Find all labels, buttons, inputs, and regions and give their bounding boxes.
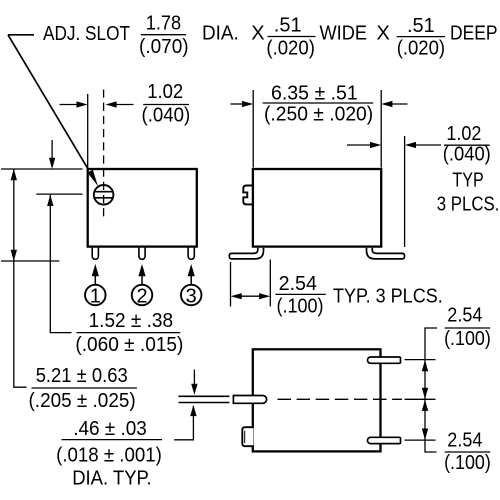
2.54 mid left arrow [231, 293, 242, 299]
side view tab [243, 186, 253, 205]
bottom view tab [242, 427, 253, 446]
5.21 up arrow [11, 169, 17, 180]
dim 2.54 right vertical with elbows [425, 328, 437, 452]
1.02 side left arrow [405, 142, 416, 148]
fraction line 2.54 mid [275, 293, 325, 295]
svg-text:.51: .51 [274, 15, 302, 37]
1.52 down arrow at top line [49, 158, 55, 169]
fraction line .51 wide [268, 36, 316, 38]
dimension line 1.52 vertical [50, 195, 71, 333]
extension 2.54 mid right [269, 260, 271, 307]
dimension line 5.21 vertical [14, 169, 27, 387]
pin number circles [85, 285, 201, 306]
fraction line 1.78 [141, 34, 186, 36]
dim 1.52 down arrow shaft [51, 140, 53, 160]
svg-text:DIA. TYP.: DIA. TYP. [72, 467, 151, 489]
svg-text:(.100): (.100) [444, 452, 491, 474]
svg-text:(.020): (.020) [266, 37, 315, 59]
svg-text:X: X [251, 23, 264, 45]
svg-text:DEEP: DEEP [450, 23, 498, 45]
front view pins [92, 246, 194, 259]
fraction line 6.35 [263, 102, 374, 104]
2.54 right: down at pin3 [422, 429, 428, 440]
svg-text:(.060 ± .015): (.060 ± .015) [75, 334, 183, 356]
leader ADJ. SLOT diagonal [8, 35, 97, 183]
svg-text:X: X [377, 23, 390, 45]
svg-text:1.02: 1.02 [446, 123, 481, 145]
screw circle [94, 90, 114, 222]
bottom view body [253, 349, 381, 451]
leader ADJ. SLOT horizontal [8, 34, 34, 36]
side view body [253, 169, 381, 247]
leader arrowhead [87, 170, 98, 186]
svg-text:WIDE: WIDE [320, 23, 368, 45]
.46 up arrow [190, 405, 196, 416]
svg-text:1.02: 1.02 [147, 81, 183, 103]
svg-text:DIA.: DIA. [202, 23, 239, 45]
tick center right [405, 398, 436, 400]
svg-text:(.020): (.020) [397, 38, 445, 60]
svg-text:.51: .51 [407, 15, 435, 37]
centerline dashed front view [103, 90, 105, 222]
svg-text:(.018 ± .001): (.018 ± .001) [56, 444, 162, 466]
extension line body top left [1, 168, 83, 170]
bottom view centerline inside [278, 398, 403, 400]
svg-text:(.100): (.100) [444, 328, 491, 350]
svg-text:6.35 ± .51: 6.35 ± .51 [271, 83, 358, 105]
svg-text:3 PLCS.: 3 PLCS. [437, 194, 500, 216]
5.21 down arrow [11, 250, 17, 261]
dim 1.02 side arrow shafts + fraction line [347, 144, 372, 146]
front view body [88, 169, 197, 247]
svg-text:ADJ. SLOT: ADJ. SLOT [43, 23, 130, 45]
dim .46 down arrow shaft [193, 370, 195, 386]
svg-text:.46 ± .03: .46 ± .03 [73, 418, 147, 440]
fraction line .51 deep [397, 36, 445, 38]
2.54 mid right arrow [259, 293, 270, 299]
svg-text:(.070): (.070) [139, 36, 189, 58]
fraction line 1.02 front [143, 104, 189, 106]
2.54 right: up at center [422, 400, 428, 411]
svg-text:5.21 ± 0.63: 5.21 ± 0.63 [36, 365, 128, 387]
2.54 right: up at pin1 [422, 360, 428, 371]
1.02 front right/left [77, 101, 88, 107]
svg-text:2: 2 [136, 285, 147, 307]
svg-text:2.54: 2.54 [279, 273, 317, 295]
extension 6.35 right [380, 90, 382, 168]
svg-text:1.52 ± .38: 1.52 ± .38 [89, 310, 174, 332]
extension 6.35 left [252, 90, 254, 168]
svg-text:TYP. 3 PLCS.: TYP. 3 PLCS. [333, 286, 443, 308]
tick pin1 right [405, 359, 436, 361]
extension solid body left edge up [87, 94, 89, 168]
dimension arrowheads [11, 101, 429, 440]
svg-text:(.100): (.100) [277, 295, 324, 317]
bottom view wiper pin bar [233, 396, 266, 404]
dim 6.35 arrow shafts [231, 103, 244, 105]
svg-text:1.78: 1.78 [146, 12, 181, 34]
leader .46 elbow [174, 406, 193, 440]
bottom view pin3 bar [367, 437, 400, 443]
side view feet [229, 248, 404, 259]
pin number arrows [92, 264, 195, 285]
extension 2.54 mid left [230, 262, 232, 307]
6.35 right arrow [381, 101, 392, 107]
svg-text:TYP: TYP [452, 170, 483, 192]
svg-text:2.54: 2.54 [447, 429, 482, 451]
svg-text:(.040): (.040) [142, 104, 191, 126]
svg-text:(.250 ± .020): (.250 ± .020) [264, 104, 373, 126]
1.02 side right arrow [370, 142, 381, 148]
bottom view pin1 bar [367, 357, 400, 363]
svg-text:(.205 ± .025): (.205 ± .025) [29, 390, 136, 412]
svg-text:3: 3 [186, 285, 197, 307]
extension line pin bottom [1, 260, 59, 262]
fraction line .46 [62, 439, 163, 441]
.46 down arrow [191, 384, 197, 395]
svg-text:2.54: 2.54 [447, 304, 482, 326]
svg-text:1: 1 [90, 285, 101, 307]
tick pin3 right [405, 439, 436, 441]
extension foot right [404, 136, 406, 247]
pin lead parallel lines [179, 395, 230, 397]
dim 1.02 front arrows shafts [60, 104, 79, 106]
1.52 up arrow [47, 195, 53, 206]
svg-text:(.040): (.040) [443, 143, 491, 165]
6.35 left arrow [242, 101, 253, 107]
dim 2.54 mid shaft [239, 295, 261, 297]
2.54 right: down at center [422, 388, 428, 399]
extension line screw center [36, 193, 82, 195]
